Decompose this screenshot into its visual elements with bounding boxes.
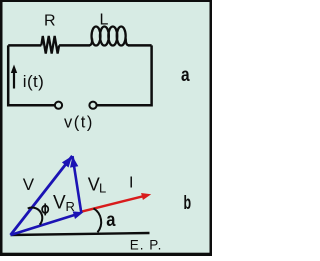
svg-text:R: R [44, 13, 56, 30]
inductor L [89, 27, 129, 46]
vector V_L (blue inductor voltage phasor) [70, 156, 81, 213]
label phi [42, 203, 48, 215]
svg-text:L: L [99, 180, 106, 195]
svg-text:b: b [184, 193, 192, 214]
svg-text:V: V [53, 192, 66, 213]
arc: angle phi between V and V_R [28, 208, 43, 225]
svg-text:v(t): v(t) [64, 113, 94, 131]
svg-text:V: V [88, 175, 100, 195]
svg-text:a: a [106, 210, 116, 231]
wire: circuit loop (left, right, top and bottom plain segments) [8, 45, 151, 105]
terminal (right, open circle) [89, 102, 96, 109]
resistor R [41, 36, 59, 54]
terminal (left, open circle) [55, 102, 62, 109]
vector V (blue total voltage phasor) [11, 156, 73, 235]
svg-text:V: V [23, 175, 35, 194]
arc: angle a between reference line and I [94, 208, 102, 232]
svg-text:R: R [66, 199, 75, 214]
vector I (red current phasor) [80, 193, 151, 212]
border frame [0, 0, 212, 256]
svg-text:E. P.: E. P. [130, 238, 163, 253]
svg-text:a: a [181, 65, 190, 86]
svg-text:I: I [129, 175, 133, 192]
current arrow i(t) [11, 65, 17, 89]
svg-text:L: L [100, 11, 109, 28]
node: phasor horizontal reference line [11, 233, 150, 235]
vector V_R (blue phasor along incline) [11, 211, 84, 235]
svg-text:i(t): i(t) [23, 72, 44, 91]
